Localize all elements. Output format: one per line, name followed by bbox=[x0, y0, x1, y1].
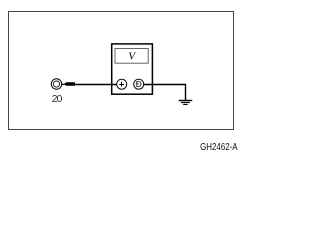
voltmeter V1 body bbox=[112, 44, 153, 94]
connector pin 20 bbox=[51, 79, 75, 89]
svg-text:Đ: Đ bbox=[136, 79, 142, 89]
svg-text:20: 20 bbox=[52, 94, 63, 105]
wire connector to voltmeter bbox=[74, 84, 117, 86]
positive terminal bbox=[117, 79, 127, 89]
negative terminal bbox=[134, 79, 144, 89]
wire voltmeter to ground bbox=[144, 84, 186, 86]
voltmeter display bbox=[115, 49, 148, 64]
svg-text:GH2462-A: GH2462-A bbox=[200, 142, 238, 153]
ground bbox=[179, 84, 193, 105]
